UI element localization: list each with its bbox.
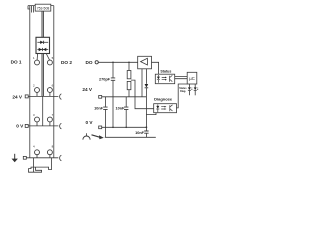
divider tap wire to Diagnose opto [131,80,154,109]
terminal 3 [35,117,40,122]
DIN rail contact meander [33,158,35,172]
FE dome symbol [83,136,90,140]
24V feed tab left [25,95,28,98]
earth rail continuation arc [60,155,62,161]
svg-text:24 V: 24 V [12,94,23,99]
0V rail [28,125,58,127]
svg-text:5: 5 [52,56,54,60]
svg-text:10nF: 10nF [116,106,126,110]
optocoupler U2 Diagnose [154,104,177,113]
resistor R1 [128,62,130,70]
svg-text:270pF: 270pF [99,78,111,82]
svg-text:1: 1 [33,56,35,60]
24V tab right circuit [99,96,102,99]
module outline [28,6,54,158]
node DO/270pF [112,62,114,64]
freewheel diode branch [145,69,147,84]
FE arrow to rail [92,135,100,137]
LED Diag [194,87,197,90]
0V internal rail [102,126,147,128]
wire amp supply to 24V rail [141,69,143,97]
0V feed tab left [25,124,28,127]
suppressor diode pair [37,49,48,51]
svg-text:7: 7 [52,113,54,117]
node DO/divider [128,62,130,64]
terminal 5 [47,60,52,65]
FE line [105,136,156,138]
diode D1 (series) [37,41,48,43]
LED Status [188,87,191,90]
stubs terminals 2,6 to 24V rail [37,92,50,96]
svg-text:6: 6 [52,84,54,88]
terminal 2 [35,88,40,93]
earth arrow symbol [14,154,16,159]
wire amp output to Status opto [152,62,159,74]
terminal 8 [47,150,52,155]
svg-text:2: 2 [33,84,35,88]
optocoupler U1 Status [155,74,174,84]
amplifier triangle [141,58,148,65]
svg-text:3: 3 [33,113,35,117]
stubs terminals 4,8 to earth rail [37,155,50,158]
terminal 4 [35,150,40,155]
svg-text:Diag.: Diag. [180,90,186,93]
24V internal rail [102,96,147,98]
node 10nF/0V [125,127,127,129]
svg-text:DO 1: DO 1 [11,60,22,65]
driver amplifier box [138,56,152,69]
output protection box [36,37,50,53]
wire stubs box to DO terminals [37,54,50,61]
capacitor 10nF (0V to FE) [145,127,147,137]
module label box 753-508 [35,4,51,11]
DO wire [98,61,137,63]
capacitor 10nF (24V to FE) [104,97,106,138]
stubs terminals 3,7 to 0V rail [37,122,50,126]
pin numbers right column [52,56,54,149]
terminal 7 [47,117,52,122]
svg-text:4: 4 [33,145,35,149]
node 270pF/0V [112,127,114,129]
svg-text:DO: DO [86,60,93,65]
pin numbers left column [33,56,35,149]
internal wire 24V rail to 0V rail [42,96,44,126]
svg-text:0 V: 0 V [16,124,24,129]
24V rail [28,95,58,97]
svg-text:Status: Status [160,69,171,73]
node diode/0V [146,126,148,128]
svg-text:24 V: 24 V [82,87,93,92]
opto output bus to uC [175,76,188,78]
module top latch notch [28,6,33,13]
svg-text:µC: µC [189,76,194,81]
earth tab left [23,156,26,159]
capacitor 270pF [112,62,114,127]
svg-text:DO 2: DO 2 [61,60,72,65]
microcontroller uC [187,72,197,84]
terminal 1 [35,60,40,65]
internal bus double wire (diode box down to 24V rail) [42,54,43,97]
svg-text:10nF: 10nF [94,106,104,110]
0V rail continuation arc [60,123,62,129]
svg-text:8: 8 [52,145,54,149]
Diagnose opto emitter to 0V [146,113,156,115]
24V rail continuation arc [60,94,62,100]
earth rail [26,157,58,159]
capacitor 10nF (24V to 0V) [125,97,127,128]
resistor R2 [127,81,131,89]
wires uC to LEDs [189,84,195,87]
svg-text:753-508: 753-508 [37,6,50,10]
DO field terminal [95,61,98,64]
0V tab right circuit [99,126,102,129]
svg-text:0 V: 0 V [86,120,94,125]
svg-text:Diagnose: Diagnose [154,97,173,102]
Diagnose opto output to uC [177,84,188,108]
svg-text:10nF: 10nF [135,131,145,135]
internal bus double wire (label box to diode box) [42,11,43,37]
terminal 6 [47,88,52,93]
